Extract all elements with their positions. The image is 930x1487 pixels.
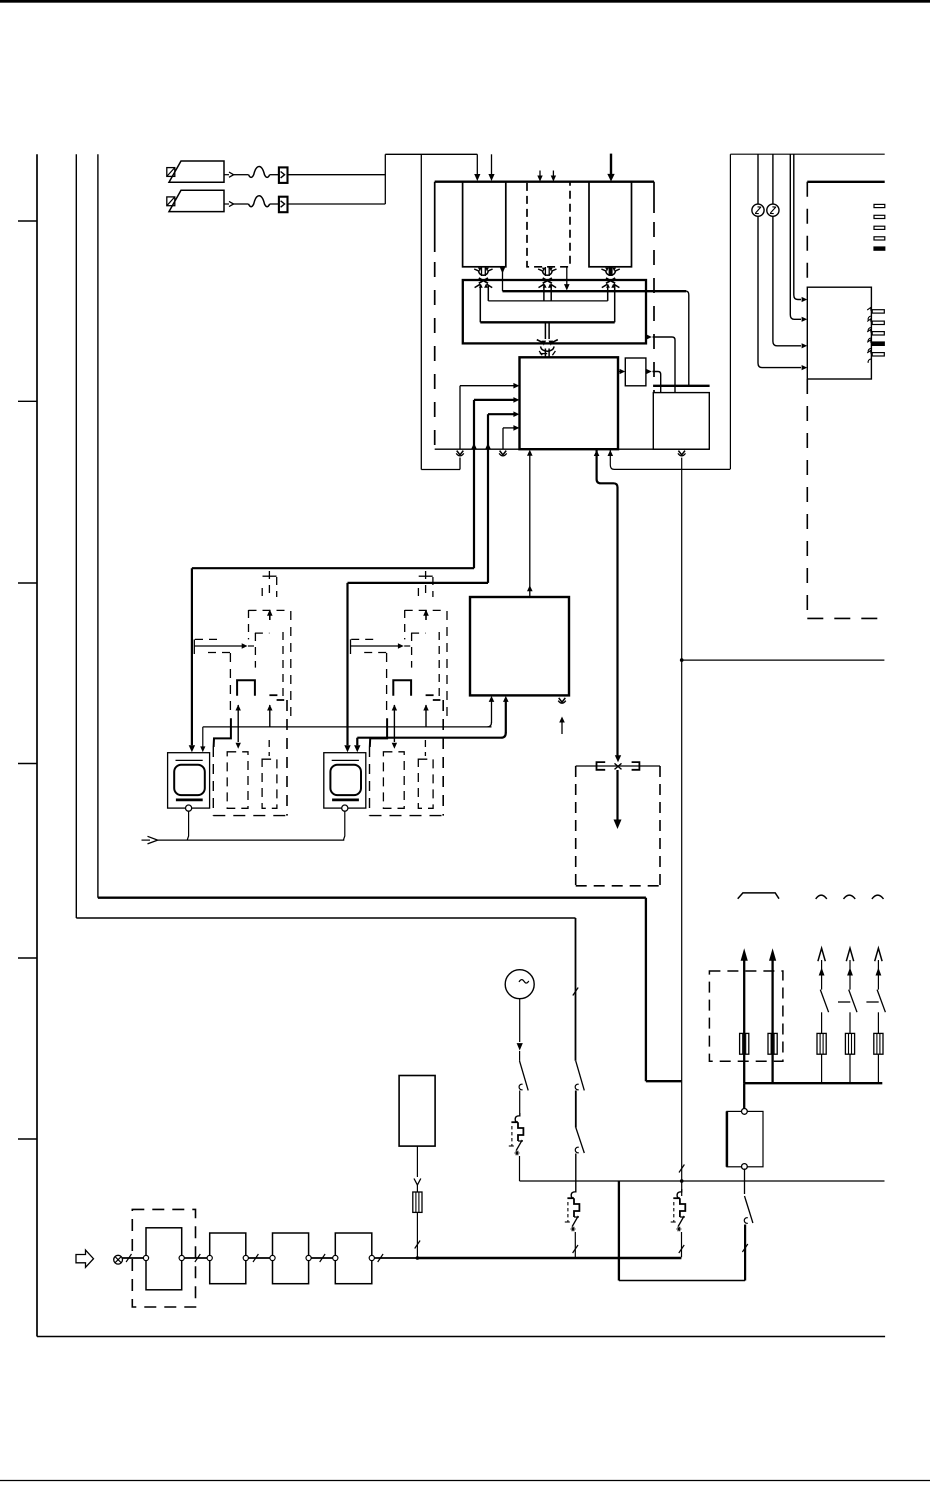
relay box U6 — [653, 393, 709, 450]
F1 dashed enclosure — [132, 1209, 195, 1307]
E dashed right — [659, 766, 661, 886]
head H2 tab — [167, 197, 175, 206]
evf1 cable dash c — [261, 588, 263, 597]
left rail a — [75, 154, 77, 918]
E cross — [615, 763, 622, 769]
evf1 input arrow wire — [194, 643, 255, 648]
fusible link FL5 — [874, 1033, 883, 1054]
switch S4 — [820, 990, 828, 1034]
mosfet Q2 — [565, 1189, 580, 1231]
evf1 cable arrow up — [267, 610, 273, 621]
border tick — [18, 1138, 37, 1140]
U7 pin b — [501, 696, 508, 738]
evf2 clip marks — [426, 695, 441, 700]
evf2 EVF base line — [332, 799, 359, 802]
edge connector P1 — [456, 451, 464, 456]
power drop x646 — [645, 898, 647, 1081]
EVF feed 1 wire — [192, 567, 474, 569]
MCU pin arrow 4 — [503, 425, 519, 431]
head H2 body — [169, 190, 224, 211]
battery lead — [414, 1146, 421, 1192]
fusible link FL3 — [817, 1033, 826, 1054]
bus terminals — [143, 1255, 374, 1260]
thick drop x619 — [618, 1181, 620, 1281]
stub arrow into U2 b — [551, 171, 556, 182]
edge connector P3 — [485, 443, 491, 449]
left rail b — [97, 154, 99, 897]
evf1 cable dash i — [282, 632, 284, 700]
filter block F3 — [273, 1233, 309, 1284]
battery B1 — [399, 1076, 435, 1147]
lamp L1 — [752, 204, 764, 216]
signal wire y738 — [357, 737, 501, 739]
bottom link y1181 — [520, 1180, 885, 1182]
servo link wire — [527, 450, 533, 597]
evf2 input arrow wire — [351, 643, 412, 648]
branch into EVF2 — [354, 738, 360, 753]
supply W3 arrow — [818, 948, 825, 989]
junction dot — [680, 1179, 684, 1183]
top wire right — [730, 153, 884, 155]
evf2 input bracket — [351, 639, 389, 654]
CN2 tail b — [550, 285, 552, 301]
evf1 outer cable left edge — [212, 747, 214, 816]
tuner block U1 — [463, 182, 506, 267]
servo block U7 — [470, 597, 569, 695]
evf1 cable dash e — [248, 610, 250, 639]
connector CN2 — [538, 267, 556, 288]
evf2 cable arrow up — [423, 610, 429, 621]
wire to bus 2 — [288, 203, 386, 205]
edge connector P2 — [471, 443, 477, 449]
chainB drop — [575, 918, 577, 1061]
evf2 cable dash a — [425, 571, 427, 597]
board B top edge — [807, 181, 884, 183]
left rail a run — [76, 917, 575, 919]
evf1 cable dash j — [229, 653, 231, 716]
block U2 (dashed option) — [527, 182, 570, 267]
thick run y1280 — [619, 1280, 745, 1282]
drop into U1 pin b — [488, 154, 494, 181]
head H1 arrow — [224, 172, 234, 177]
filter block F2 — [210, 1233, 246, 1284]
E dashed left — [575, 766, 577, 886]
evf2 cable dash f — [446, 611, 448, 718]
tuner block U3 — [589, 182, 632, 267]
connector CN3 — [601, 267, 619, 288]
fuse F6 — [413, 1192, 422, 1212]
relay feed — [743, 1083, 745, 1108]
supply W4 arrow — [846, 948, 853, 989]
evf2 conn arrow a2 — [392, 727, 397, 749]
stub arrow into U2 a — [537, 171, 542, 182]
fusible link FL1 — [740, 1033, 749, 1054]
EVF feed 2 wire — [348, 582, 489, 584]
evf2 cable dash b — [432, 577, 434, 597]
lamp wire 1 lower — [758, 216, 807, 370]
evf2 ffc rect 2 — [418, 759, 433, 808]
W12 dashed box — [709, 971, 783, 1061]
CN3 tail to h2 — [607, 285, 609, 301]
motor lead — [517, 999, 523, 1061]
board B edge pins top — [874, 204, 885, 250]
P2 lower wire — [473, 449, 475, 568]
MCU bottom pin 6 — [594, 449, 618, 756]
board B left dashed edge lower — [806, 379, 808, 618]
S3 link — [575, 1154, 577, 1190]
evf1 conn arrow b — [267, 705, 272, 727]
P3 lower wire — [487, 449, 489, 583]
border tick — [18, 763, 37, 765]
antenna bus riser — [384, 154, 386, 204]
evf1 EVF ground lead — [187, 811, 188, 840]
chainC link — [679, 1081, 684, 1196]
bottom bus seg6 — [418, 1257, 682, 1259]
lamp wire 2 upper — [772, 154, 774, 204]
evf1 EVF base line — [176, 799, 203, 802]
evf2 ffc rect 1 — [383, 752, 404, 809]
FL5 lower lead — [877, 1054, 879, 1083]
board B left dashed edge upper — [806, 182, 808, 287]
E clip right — [632, 762, 640, 770]
MCU pin wire 4 riser — [502, 428, 504, 449]
bracket small 2 — [844, 895, 856, 899]
flex lead W1 — [234, 167, 279, 178]
wire into U5 pin2 — [790, 154, 807, 322]
board A bottom edge — [435, 448, 710, 450]
ferrite/connector J1 — [279, 167, 288, 183]
bus slashes — [126, 1254, 383, 1262]
MCU pin arrow 3 — [488, 411, 519, 417]
evf2 EVF screen — [330, 765, 361, 795]
E clip left — [597, 762, 606, 770]
feeder into U3 — [607, 154, 614, 182]
lamp wire 2 lower — [773, 216, 807, 348]
flex lead W2 — [234, 196, 279, 207]
junction box outline — [463, 280, 646, 343]
evf2 outer cable left edge — [369, 747, 371, 816]
power run y1081 — [646, 1080, 682, 1082]
evf2 cable dash h — [411, 633, 413, 668]
MCU pin wire 2 riser — [473, 400, 475, 449]
evf1 cable dash a — [268, 571, 270, 597]
filter block F4 — [335, 1233, 372, 1284]
evf1 outer cable right edge — [286, 700, 288, 816]
border tick — [18, 957, 37, 959]
bracket small 3 — [872, 895, 884, 899]
U5 right pin marks — [867, 308, 884, 363]
antenna terminal — [114, 1255, 123, 1264]
wire U1 to h1 — [500, 267, 506, 291]
fuse lead — [415, 1212, 420, 1257]
CN1 tail to h3 — [479, 285, 481, 323]
MCU pin wire 1 riser — [459, 386, 461, 449]
supply W1 — [741, 948, 748, 1083]
bottom bus seg1 — [123, 1257, 147, 1259]
mosfet Q3 — [671, 1189, 686, 1231]
small box U4b — [625, 358, 646, 386]
evf2 cable tick — [419, 575, 433, 577]
border tick — [18, 220, 37, 222]
evf1 input bracket — [194, 639, 232, 654]
lamp L2 — [767, 204, 779, 216]
evf2 outer cable right edge — [442, 700, 444, 816]
evf2 cable dash d — [405, 609, 447, 611]
FL3 lower lead — [821, 1054, 823, 1083]
evf1 ffc rect 1 — [227, 752, 248, 809]
head H1 tab — [167, 168, 175, 177]
wire U4 right out — [646, 334, 675, 392]
fusible link FL2 — [768, 1033, 777, 1054]
breaker U8 — [727, 1111, 763, 1166]
FL4 lower lead — [849, 1054, 851, 1083]
evf1 EVF outer box — [168, 753, 210, 808]
evf1 cable dash b — [276, 577, 278, 597]
page bottom rule — [0, 1480, 930, 1482]
breaker lead — [744, 1169, 746, 1195]
U6 top feed line — [653, 385, 710, 387]
long riser x421 — [420, 154, 422, 469]
battery junction — [416, 1256, 420, 1260]
evf1 outer cable bottom — [213, 815, 287, 817]
power bus y1083 — [744, 1082, 882, 1084]
center plug upper — [545, 322, 549, 339]
board A left dashed edge — [434, 182, 436, 450]
filter block F1 — [146, 1228, 182, 1290]
border tick — [18, 582, 37, 584]
branch into EVF1 — [200, 727, 205, 752]
E inner arrow — [614, 770, 622, 829]
wire h1 drop — [686, 291, 689, 386]
evf1 EVF screen — [174, 765, 205, 795]
lamp wire 1 upper — [757, 154, 759, 204]
left rail b run — [98, 897, 646, 899]
evf2 cable dash c — [417, 588, 419, 597]
MCU pin arrow 1 — [460, 383, 519, 389]
evf1 cable dash h — [254, 633, 256, 668]
evf1 conn dash b2 — [268, 740, 270, 756]
ground arrow — [142, 836, 158, 844]
switch S2 — [575, 1061, 584, 1091]
head H2 arrow — [224, 201, 234, 206]
evf2 EVF outer box — [324, 753, 366, 808]
bottom bus seg4 — [309, 1257, 336, 1259]
breaker bottom terminal — [742, 1164, 748, 1170]
border tick — [18, 400, 37, 402]
evf2 conn dash b2 — [424, 740, 426, 756]
evf2 cable dash e — [404, 610, 406, 639]
long drop x681 — [681, 458, 683, 1082]
wire h2 — [488, 300, 607, 302]
supply W5 arrow — [875, 948, 882, 989]
Q3 source lead — [679, 1232, 684, 1257]
long riser x730 — [729, 154, 731, 469]
evf2 conn arrow a — [392, 705, 397, 727]
evf2 outer cable bottom — [370, 815, 444, 817]
evf1 conn arrow a2 — [236, 727, 241, 749]
switch S1 — [519, 1061, 528, 1091]
bottom bus seg3 — [246, 1257, 273, 1259]
bottom bus seg5 — [372, 1257, 418, 1259]
ground wire — [158, 839, 345, 841]
evf2 conn arrow b — [423, 705, 428, 727]
EVF feed 2 drop — [344, 583, 350, 752]
wire h1 — [503, 290, 687, 292]
switch S5 — [838, 990, 857, 1034]
wire h3 — [480, 321, 614, 323]
connector CN1 — [474, 267, 492, 288]
breaker top terminal — [742, 1109, 748, 1115]
evf2 EVF top line — [332, 759, 359, 761]
switch S3 — [575, 1128, 584, 1154]
evf1 cable dash d — [249, 609, 291, 611]
evf1 ffc rect 2 — [262, 759, 277, 808]
evf2 clip box — [393, 680, 411, 695]
evf2 EVF terminal — [342, 805, 348, 811]
center plug lower — [545, 349, 549, 358]
evf2 EVF ground lead — [343, 811, 344, 840]
ferrite/connector J2 — [279, 197, 288, 213]
switch S6 — [866, 990, 885, 1034]
motor M1 — [505, 970, 534, 999]
edge connector P4 — [499, 451, 507, 456]
switch S7 — [744, 1196, 753, 1223]
evf1 EVF terminal — [186, 805, 192, 811]
S7 lower lead — [742, 1225, 747, 1281]
wire into U5 pin1 — [794, 154, 807, 302]
evf1 cable dash g — [255, 632, 270, 634]
bracket large — [738, 893, 779, 899]
evf1 clip box — [237, 680, 255, 695]
IC U5 — [807, 287, 871, 379]
MCU pin arrow 2 — [474, 397, 519, 403]
S2 link — [575, 1091, 577, 1128]
chainB tick — [573, 988, 578, 996]
signal wire y727 — [203, 726, 492, 728]
edge connector P5 — [678, 451, 686, 456]
board A top edge bus — [435, 180, 654, 182]
top bus wire — [385, 153, 477, 155]
evf1 cable dash f — [290, 611, 292, 718]
supply W2 — [769, 948, 776, 1083]
evf1 cable step — [214, 718, 231, 747]
mosfet Q1 — [509, 1113, 524, 1155]
MCU pin wire 3 riser — [487, 414, 489, 448]
evf1 cable tick — [263, 575, 277, 577]
wire U2 to h1 — [564, 267, 570, 291]
drop into U1 pin a — [474, 154, 480, 181]
CN1 tail to h2 — [487, 285, 489, 301]
CN2 tail a — [543, 285, 545, 301]
bottom border line — [37, 1336, 885, 1338]
evf2 cable dash j — [386, 653, 388, 716]
wire MCU to U4b — [618, 369, 625, 374]
Q1 source lead — [519, 1156, 521, 1181]
E top line — [576, 765, 660, 767]
input block arrow — [76, 1250, 94, 1267]
S1 lower lead — [519, 1091, 521, 1114]
wire to bus 1 — [288, 174, 386, 176]
E feed arrow — [615, 755, 621, 762]
evf2 cable step — [370, 718, 387, 747]
head H1 body — [169, 161, 224, 182]
evf1 EVF top line — [176, 759, 203, 761]
EVF feed 1 drop — [189, 568, 195, 752]
U7 pin c stub — [558, 698, 566, 734]
fusible link FL4 — [845, 1033, 854, 1054]
connector CN4 — [537, 340, 558, 356]
right link y660 — [680, 658, 885, 662]
Q2 source lead — [573, 1232, 578, 1257]
evf1 clip marks — [269, 695, 284, 700]
page top bar — [0, 0, 930, 3]
edge connector P1 lower wire — [421, 458, 460, 470]
MCU block U4 — [520, 357, 619, 449]
U7 pin a — [488, 696, 495, 727]
bottom bus seg2 — [182, 1257, 210, 1259]
wire U4b out — [646, 369, 661, 393]
evf1 conn arrow a — [236, 705, 241, 727]
CN3 tail to h3 — [614, 285, 616, 323]
evf2 cable dash i — [438, 632, 440, 700]
board B bottom dashed edge — [807, 617, 881, 619]
bracket small 1 — [816, 895, 827, 899]
left border line — [36, 154, 38, 1336]
E dashed bottom — [576, 885, 660, 887]
board A right dashed edge — [653, 182, 655, 393]
evf2 cable dash g — [411, 632, 426, 634]
MCU bottom pin 5 — [608, 449, 731, 469]
